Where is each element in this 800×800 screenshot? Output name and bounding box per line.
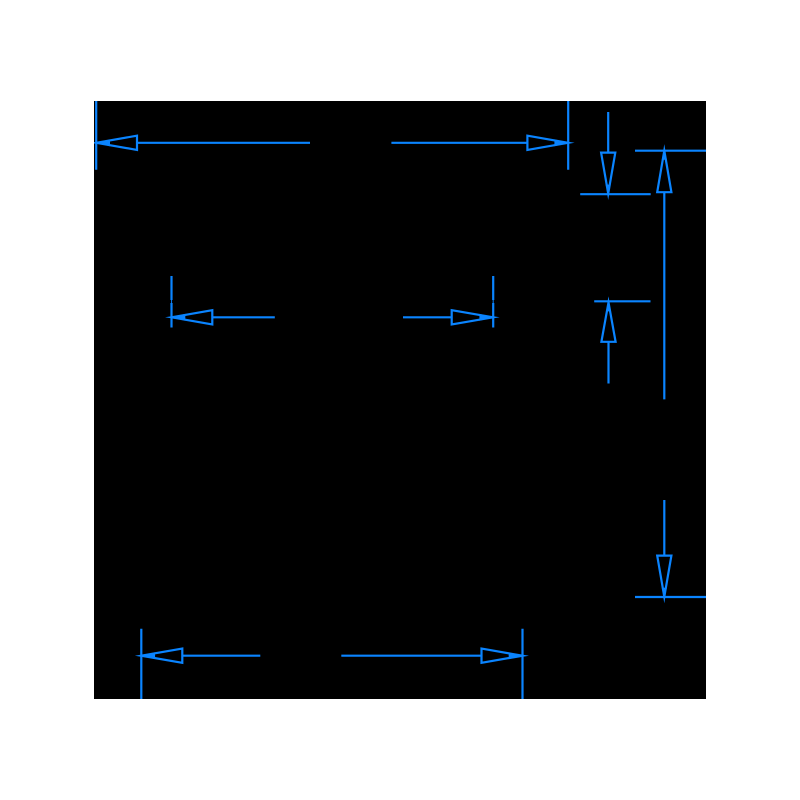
dimension A right arrowhead tip stub [554,139,568,146]
dimension C top arrowhead tip stub [662,151,667,160]
dimension B left arrowhead tip stub [172,314,186,321]
dimension D down arrowhead [601,153,615,194]
dimension B left extension tick [170,276,172,328]
dimension C bottom arrowhead [657,556,671,597]
dimension D upper leader segment [607,112,609,153]
dimension B left tick notch [170,300,173,303]
dimension B line right segment [403,316,452,318]
dimension D up arrowhead tip stub [606,302,611,311]
dimension D down arrowhead tip stub [606,185,611,194]
dimension E right arrowhead tip stub [509,652,523,659]
dimension E right extension tick [521,629,523,705]
black app window panel [94,101,706,699]
dimension C line lower segment [663,500,665,556]
dimension C top arrowhead [657,151,671,193]
dimension C bottom extension tick [635,596,710,598]
dimension D lower tick [594,300,650,302]
dimension E line right segment [341,655,481,657]
dimension B right tick notch [492,300,495,303]
dimension E left arrowhead [141,649,182,663]
dimension B right arrowhead tip stub [479,314,493,321]
dimension A left arrowhead [96,136,137,150]
dimension A line right segment [391,142,527,144]
dimension E right arrowhead [482,649,523,663]
dimension A right arrowhead [527,136,568,150]
dimension E left arrowhead tip stub [141,652,155,659]
dimension A right extension tick [567,95,569,170]
dimension C top extension tick [635,150,710,152]
dimension B line left segment [212,316,274,318]
dimension D up arrowhead [601,302,615,341]
dimension A left extension tick [95,95,97,170]
dimension B left arrowhead [172,310,213,324]
dimension C bottom arrowhead tip stub [662,588,667,597]
dimension B right tick notch thin bridge [492,300,494,304]
dimension B right arrowhead [452,310,494,324]
dimension E left extension tick [140,629,142,705]
dimension B right extension tick [492,276,494,328]
dimension A line left segment [137,142,310,144]
dimension C line upper segment [663,192,665,399]
dimension D upper tick [580,193,651,195]
dimension B left tick notch thin bridge [171,300,173,304]
dimension D lower leader segment [607,342,609,384]
dimension A left arrowhead tip stub [96,139,110,146]
dimension E line left segment [182,655,260,657]
